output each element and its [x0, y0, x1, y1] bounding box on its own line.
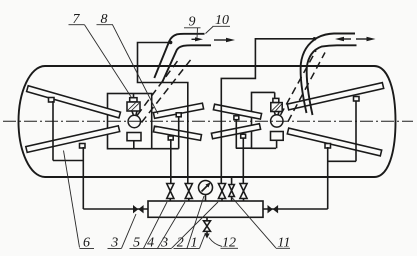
right lower box — [271, 132, 284, 141]
spray bar lower-left long — [26, 126, 120, 153]
right U-pipe riser — [355, 101, 357, 161]
leader 2 — [187, 196, 204, 248]
left outlet arrow 2 — [214, 38, 235, 42]
small valve V5 — [229, 185, 235, 197]
junction dot left — [169, 41, 173, 45]
left riser pipe wall B — [162, 45, 211, 82]
right lower box stem — [276, 140, 278, 148]
lower box left — [127, 133, 141, 141]
spray bar upper-left short (right assy) — [213, 104, 261, 119]
right feed piping from riser tap — [221, 39, 315, 184]
inlet valve right (bowtie) — [268, 205, 279, 213]
right eductor neck — [274, 112, 275, 116]
leader 11 — [232, 198, 276, 248]
right dashed axis D2 — [288, 53, 325, 122]
left U-pipe riser — [52, 101, 54, 161]
valve V2 — [185, 184, 192, 199]
left outlet arrow 1 — [192, 37, 204, 41]
leader 1 — [200, 233, 206, 248]
right assembly housing (C-shape) — [252, 92, 277, 148]
foot on lower-left bar — [80, 144, 86, 149]
foot on upper-left bar — [49, 98, 55, 103]
left dashed axis D2 — [142, 58, 193, 123]
foot on upper-right bar — [354, 97, 360, 102]
svg-text:10: 10 — [215, 13, 229, 28]
valve drop v4 — [242, 138, 244, 184]
foot — [234, 116, 239, 120]
right down pipe — [327, 147, 329, 209]
foot on lower short bar right — [241, 134, 246, 138]
spray bar lower-right short (left assy) — [154, 126, 202, 140]
right riser pipe wall B — [307, 45, 357, 115]
right U-pipe bottom — [328, 160, 356, 162]
eductor circle left — [128, 115, 140, 127]
left feed to manifold — [83, 208, 148, 210]
leader 5 — [144, 202, 168, 248]
left U-pipe bottom — [53, 160, 83, 162]
short-bar stem right — [235, 120, 237, 149]
left feed piping from riser tap — [138, 43, 188, 185]
leader 9 — [196, 28, 199, 38]
left down pipe — [82, 147, 84, 209]
spray bar upper-right long — [287, 83, 383, 110]
foot on it — [176, 113, 181, 117]
lower box stem — [133, 141, 135, 149]
drain outlet — [206, 232, 208, 236]
leader 6 — [64, 151, 80, 248]
svg-text:9: 9 — [189, 15, 196, 30]
spray bar lower-left short (right assy) — [211, 124, 260, 139]
junction dot right — [313, 37, 317, 41]
left assembly housing — [108, 94, 152, 149]
right eductor circle — [271, 115, 283, 127]
foot on lower-right bar — [325, 144, 331, 149]
left dashed axis D1 — [137, 59, 179, 115]
tank axis centerline — [3, 120, 413, 122]
connector left — [152, 148, 179, 150]
foot on lower short bar left — [168, 136, 173, 140]
spray bar upper-left long — [27, 86, 121, 118]
leader 4 — [158, 202, 186, 248]
right outlet arrow left-pointing — [335, 37, 351, 41]
small valve drop (tank drain tap) — [231, 178, 233, 185]
right riser pipe wall A — [301, 34, 355, 114]
right outlet arrow right-pointing — [356, 37, 376, 41]
left riser pipe wall A — [154, 34, 204, 78]
connector right — [236, 147, 252, 149]
hatched box (component 7) — [127, 102, 140, 111]
short-bar stem left — [178, 116, 180, 149]
leader 10 — [206, 27, 214, 34]
right hatched box — [271, 103, 282, 112]
leader 7 — [85, 25, 132, 98]
leader 3a — [122, 214, 137, 248]
valve V4 — [240, 184, 247, 199]
pressure gauge — [199, 181, 213, 195]
valve V3 — [218, 184, 225, 199]
right dashed axis D1 — [281, 51, 317, 116]
tank shell outline — [19, 66, 396, 177]
nozzle cap 7 stem — [133, 94, 135, 99]
right feed to manifold — [263, 208, 328, 210]
right nozzle cap — [273, 98, 279, 102]
manifold — [148, 201, 263, 217]
right cap stem — [274, 92, 276, 98]
valve drop v1 — [170, 139, 172, 184]
leader 12 — [209, 238, 222, 247]
spray bar lower-right long — [287, 128, 381, 156]
eductor neck left — [132, 111, 133, 115]
spray bar upper-right short (left assy) — [153, 103, 203, 118]
gauge stem — [205, 195, 207, 202]
drain valve — [204, 221, 211, 232]
leader 8 — [113, 25, 159, 114]
inlet valve left (bowtie) — [133, 205, 144, 213]
leader 3b — [172, 202, 219, 248]
valve V1 — [167, 184, 174, 199]
nozzle cap 7 — [130, 98, 137, 102]
drain stem — [206, 217, 208, 221]
